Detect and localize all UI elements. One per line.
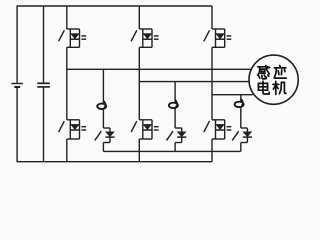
auxiliary switch-diode VB (phase B tap) <box>167 128 187 143</box>
induction motor M (circle) <box>249 55 298 104</box>
wire: phase B tap <box>174 82 176 128</box>
wire: leg B top <box>138 6 140 29</box>
wire: leg B mid <box>138 47 140 120</box>
wire: phase A output to motor <box>67 68 251 70</box>
wire: phase A tap <box>102 69 104 128</box>
switch module S2 (phase C lower: switch, diode, snubber cap) <box>204 120 232 139</box>
switch module S4 (phase A lower: switch, diode, snubber cap) <box>59 120 87 139</box>
label: 感应电机 (induction motor) text <box>258 66 287 95</box>
auxiliary switch-diode VC (phase C tap) <box>232 128 252 143</box>
wire: phase C tap <box>240 95 242 128</box>
dc-link capacitor C <box>37 6 50 162</box>
wire: leg A mid (upper module to lower module) <box>66 47 68 120</box>
wire: aux A drop <box>102 143 104 152</box>
sensor loop on phase A tap <box>97 101 106 109</box>
wire: leg A bottom <box>66 139 68 162</box>
wire: leg A top <box>66 6 68 29</box>
sensor loop on phase C tap <box>235 99 244 107</box>
switch module S5 (phase C upper: switch, diode, snubber cap) <box>204 29 232 47</box>
switch module S6 (phase B lower: switch, diode, snubber cap) <box>131 120 159 139</box>
wire: positive DC bus <box>17 5 213 7</box>
wire: auxiliary return line <box>103 150 240 152</box>
wire: leg C top <box>211 6 213 29</box>
battery E (DC source) <box>11 6 23 162</box>
wire: negative DC bus <box>17 161 213 163</box>
wire: phase C output to motor <box>212 94 253 96</box>
wire: aux C drop <box>240 143 242 152</box>
wire: leg C mid <box>211 47 213 120</box>
switch module S3 (phase B upper: switch, diode, snubber cap) <box>131 29 159 47</box>
wire: aux B drop <box>174 143 176 152</box>
wire: phase B output to motor <box>139 81 249 83</box>
switch module S1 (phase A upper: switch, diode, snubber cap) <box>59 29 87 47</box>
sensor loop on phase B tap <box>169 100 178 108</box>
auxiliary switch-diode VA (phase A tap) <box>95 128 115 143</box>
wire: leg B bottom <box>138 139 140 162</box>
wire: leg C bottom (joins negative bus end) <box>211 139 213 162</box>
